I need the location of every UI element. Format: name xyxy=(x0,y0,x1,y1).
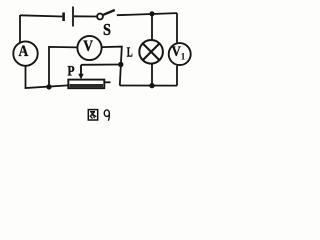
wire bottom rail right xyxy=(120,85,177,87)
svg-text:L: L xyxy=(127,45,133,60)
caption glyph tu (figure) xyxy=(88,110,97,120)
svg-text:S: S xyxy=(103,20,111,39)
junction dot top xyxy=(149,11,154,16)
lamp L xyxy=(139,40,163,64)
wire left vertical down to ammeter xyxy=(19,15,21,43)
svg-text:A: A xyxy=(19,43,29,60)
svg-text:1: 1 xyxy=(181,53,186,63)
rheostat slider arrow xyxy=(78,65,83,80)
wire V left tap xyxy=(49,47,77,87)
wire ammeter to bottom rail xyxy=(26,66,68,88)
wire switch to top-right corner xyxy=(117,13,177,15)
wire down to lamp xyxy=(151,14,153,40)
svg-text:P: P xyxy=(67,64,74,80)
junction dot slider net xyxy=(118,62,123,67)
switch S xyxy=(97,10,115,19)
wire top-right corner down to V1 xyxy=(176,13,178,43)
wire lamp to bottom rail xyxy=(151,64,153,85)
wire top-left from corner to battery xyxy=(20,15,62,17)
rheostat body xyxy=(68,80,104,89)
svg-text:V: V xyxy=(83,38,93,55)
wire V right to vertical xyxy=(102,47,121,86)
caption numeral 9 xyxy=(104,110,109,121)
junction dot bottom-right xyxy=(149,83,154,88)
wire V1 to bottom rail xyxy=(176,66,178,86)
wire battery to switch xyxy=(74,15,97,17)
battery cell xyxy=(64,7,73,27)
voltmeter V1 xyxy=(169,43,191,65)
rheostat slider wire xyxy=(81,64,121,66)
voltmeter V xyxy=(77,36,101,60)
ammeter A xyxy=(13,41,37,65)
junction dot bottom-left xyxy=(46,84,51,89)
rheostat right stub xyxy=(105,81,111,83)
